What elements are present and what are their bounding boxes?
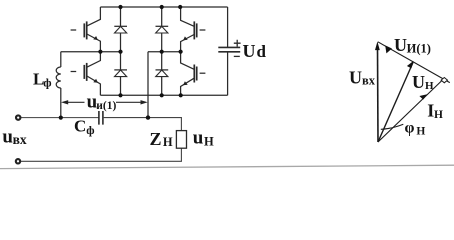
wire inductor branch upper: [60, 52, 62, 67]
label Ui(1) (phasor): [394, 35, 431, 56]
transistor VT2 (bottom left IGBT): [71, 52, 101, 96]
svg-text:ф: ф: [43, 76, 51, 90]
separator line (scan artifact): [0, 165, 454, 168]
arrowhead Ui(1): [385, 45, 392, 53]
svg-text:вх: вх: [362, 74, 376, 88]
label Cf: [74, 116, 95, 137]
svg-text:Н: Н: [434, 109, 443, 121]
diode VD4 (bottom, rail 2): [156, 70, 169, 77]
svg-text:d: d: [257, 42, 267, 61]
svg-text:φ: φ: [405, 120, 415, 137]
node bottom rail / diode rail 2: [160, 93, 164, 97]
svg-text:и(1): и(1): [96, 100, 116, 112]
dimension arrow ui(1): [61, 100, 148, 104]
wire load bottom: [21, 148, 182, 161]
node right mid rail / right leg: [179, 50, 183, 54]
vector Uvx: [377, 47, 380, 142]
node top rail / diode rail 1: [118, 5, 122, 9]
node Lf / input wire: [59, 116, 63, 120]
transistor VT4 (bottom right IGBT): [181, 52, 206, 96]
label Lf: [33, 69, 52, 89]
load Zn rectangle: [176, 131, 186, 149]
svg-text:ф: ф: [86, 123, 94, 137]
diode VD3 (top, rail 2): [156, 26, 169, 33]
wire left mid rail: [61, 51, 121, 53]
inductor Lf coil: [56, 67, 61, 88]
svg-text:И(1): И(1): [407, 41, 431, 55]
transistor VT1 (top left IGBT): [71, 7, 101, 52]
svg-text:U: U: [349, 67, 362, 87]
svg-text:Z: Z: [150, 129, 162, 149]
label Ud: [243, 41, 267, 61]
diode VD2 (bottom, rail 1): [114, 70, 127, 77]
transistor VT3 (top right IGBT): [181, 7, 206, 52]
wire output to load: [103, 118, 181, 131]
node top rail / diode rail 2: [160, 5, 164, 9]
svg-text:C: C: [74, 116, 86, 135]
label Uvx (phasor): [349, 67, 376, 87]
terminal input bottom: [16, 159, 20, 163]
svg-text:U: U: [412, 72, 425, 92]
svg-text:Н: Н: [163, 135, 173, 149]
line Ui(1) construction (Uvx tip to corner): [378, 42, 450, 83]
svg-text:u: u: [193, 128, 204, 149]
wire bottom rail: [100, 94, 227, 96]
wire inductor branch lower: [60, 88, 62, 118]
terminal input top: [16, 115, 20, 119]
node bridge drop / output wire: [146, 115, 150, 119]
diode rail 1 wire: [120, 7, 122, 95]
plus sign of Ud: [234, 40, 241, 47]
right angle mark: [441, 78, 447, 83]
capacitor Cd (DC link) plates: [218, 47, 240, 51]
diode rail 2 wire: [161, 7, 163, 95]
wire input top: [21, 117, 99, 119]
wire top rail: [100, 6, 227, 8]
node bottom rail / diode rail 1: [118, 93, 122, 97]
label phi_n (phasor): [405, 120, 426, 138]
capacitor Cf plates: [99, 111, 103, 125]
label Zn: [150, 129, 173, 149]
svg-text:Н: Н: [425, 80, 434, 92]
vector In with extension to right angle corner: [378, 79, 444, 142]
diode VD1 (top, rail 1): [114, 26, 127, 33]
svg-text:U: U: [243, 41, 256, 61]
svg-text:вх: вх: [13, 132, 27, 147]
label ui(1): [87, 92, 117, 113]
svg-text:Н: Н: [204, 135, 214, 149]
svg-text:Н: Н: [416, 126, 425, 138]
node right mid rail / diode rail 2: [160, 50, 164, 54]
arc phi_n: [381, 124, 404, 129]
node top rail / right leg: [178, 5, 182, 9]
wire bridge output drop: [147, 52, 149, 118]
wire right rail lower segment: [227, 52, 229, 95]
node bottom rail / right leg: [179, 93, 183, 97]
wire right mid rail: [148, 51, 181, 53]
label In (phasor): [427, 100, 443, 121]
minus sign of Ud: [234, 55, 240, 57]
label Un (phasor): [412, 72, 434, 92]
node left mid rail / left leg: [98, 50, 102, 54]
phasor diagram: [375, 42, 450, 143]
label un: [193, 128, 214, 149]
node left mid rail / diode rail 1: [118, 50, 122, 54]
svg-text:U: U: [394, 35, 407, 55]
vector Un: [378, 63, 413, 143]
wire right rail upper segment: [227, 7, 229, 47]
label uvx: [2, 126, 26, 147]
